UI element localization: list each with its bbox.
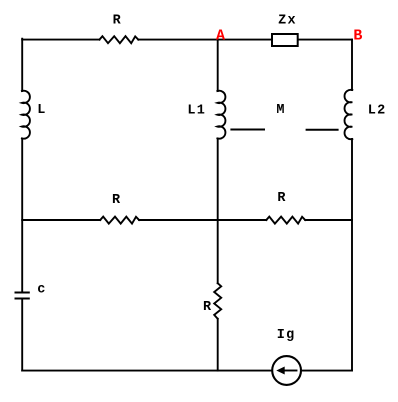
- svg-text:R: R: [203, 300, 212, 315]
- svg-text:c: c: [37, 282, 45, 297]
- svg-text:A: A: [216, 27, 225, 44]
- svg-text:R: R: [113, 13, 122, 28]
- svg-text:R: R: [112, 193, 121, 208]
- svg-text:Zx: Zx: [278, 13, 297, 28]
- svg-text:L2: L2: [368, 103, 387, 118]
- svg-text:Ig: Ig: [277, 328, 296, 343]
- svg-text:L1: L1: [187, 104, 206, 119]
- svg-text:M: M: [276, 103, 284, 118]
- svg-text:L: L: [37, 103, 45, 118]
- svg-text:R: R: [277, 191, 286, 206]
- svg-text:B: B: [353, 28, 362, 45]
